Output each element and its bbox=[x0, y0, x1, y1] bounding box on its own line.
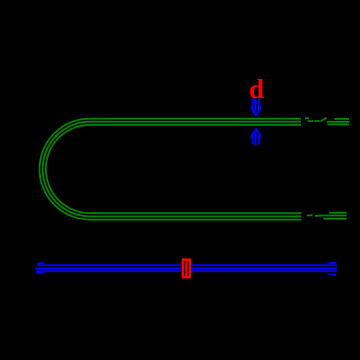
wire top bar break dashes bbox=[305, 117, 309, 119]
upper d-arrow head (down) bbox=[251, 106, 253, 111]
wire left bend (semicircle) bbox=[39, 119, 90, 220]
right arrowhead bbox=[329, 262, 336, 265]
wire top bar bbox=[90, 118, 301, 120]
lower d-arrow head (up) bbox=[251, 134, 253, 139]
upper d-arrow shaft (triple) bbox=[252, 99, 254, 111]
wire bottom bar bbox=[90, 212, 302, 214]
wire bottom bar right stub bbox=[329, 212, 347, 214]
dimension arrows for d (blue) bbox=[252, 98, 260, 146]
length dimension line l (blue, triple-stroke) bbox=[35, 263, 337, 275]
wire top bar right stub bbox=[334, 118, 349, 120]
wire hairpin (green, triple-stroke) bbox=[39, 118, 349, 220]
left arrowhead bbox=[37, 262, 44, 265]
label d (red) bbox=[249, 74, 264, 104]
wire bottom bar break dashes bbox=[307, 214, 313, 216]
label l (red, triple-stroke glyph) bbox=[182, 259, 191, 278]
svg-text:d: d bbox=[249, 74, 264, 104]
lower d-arrow shaft (triple) bbox=[252, 134, 254, 145]
